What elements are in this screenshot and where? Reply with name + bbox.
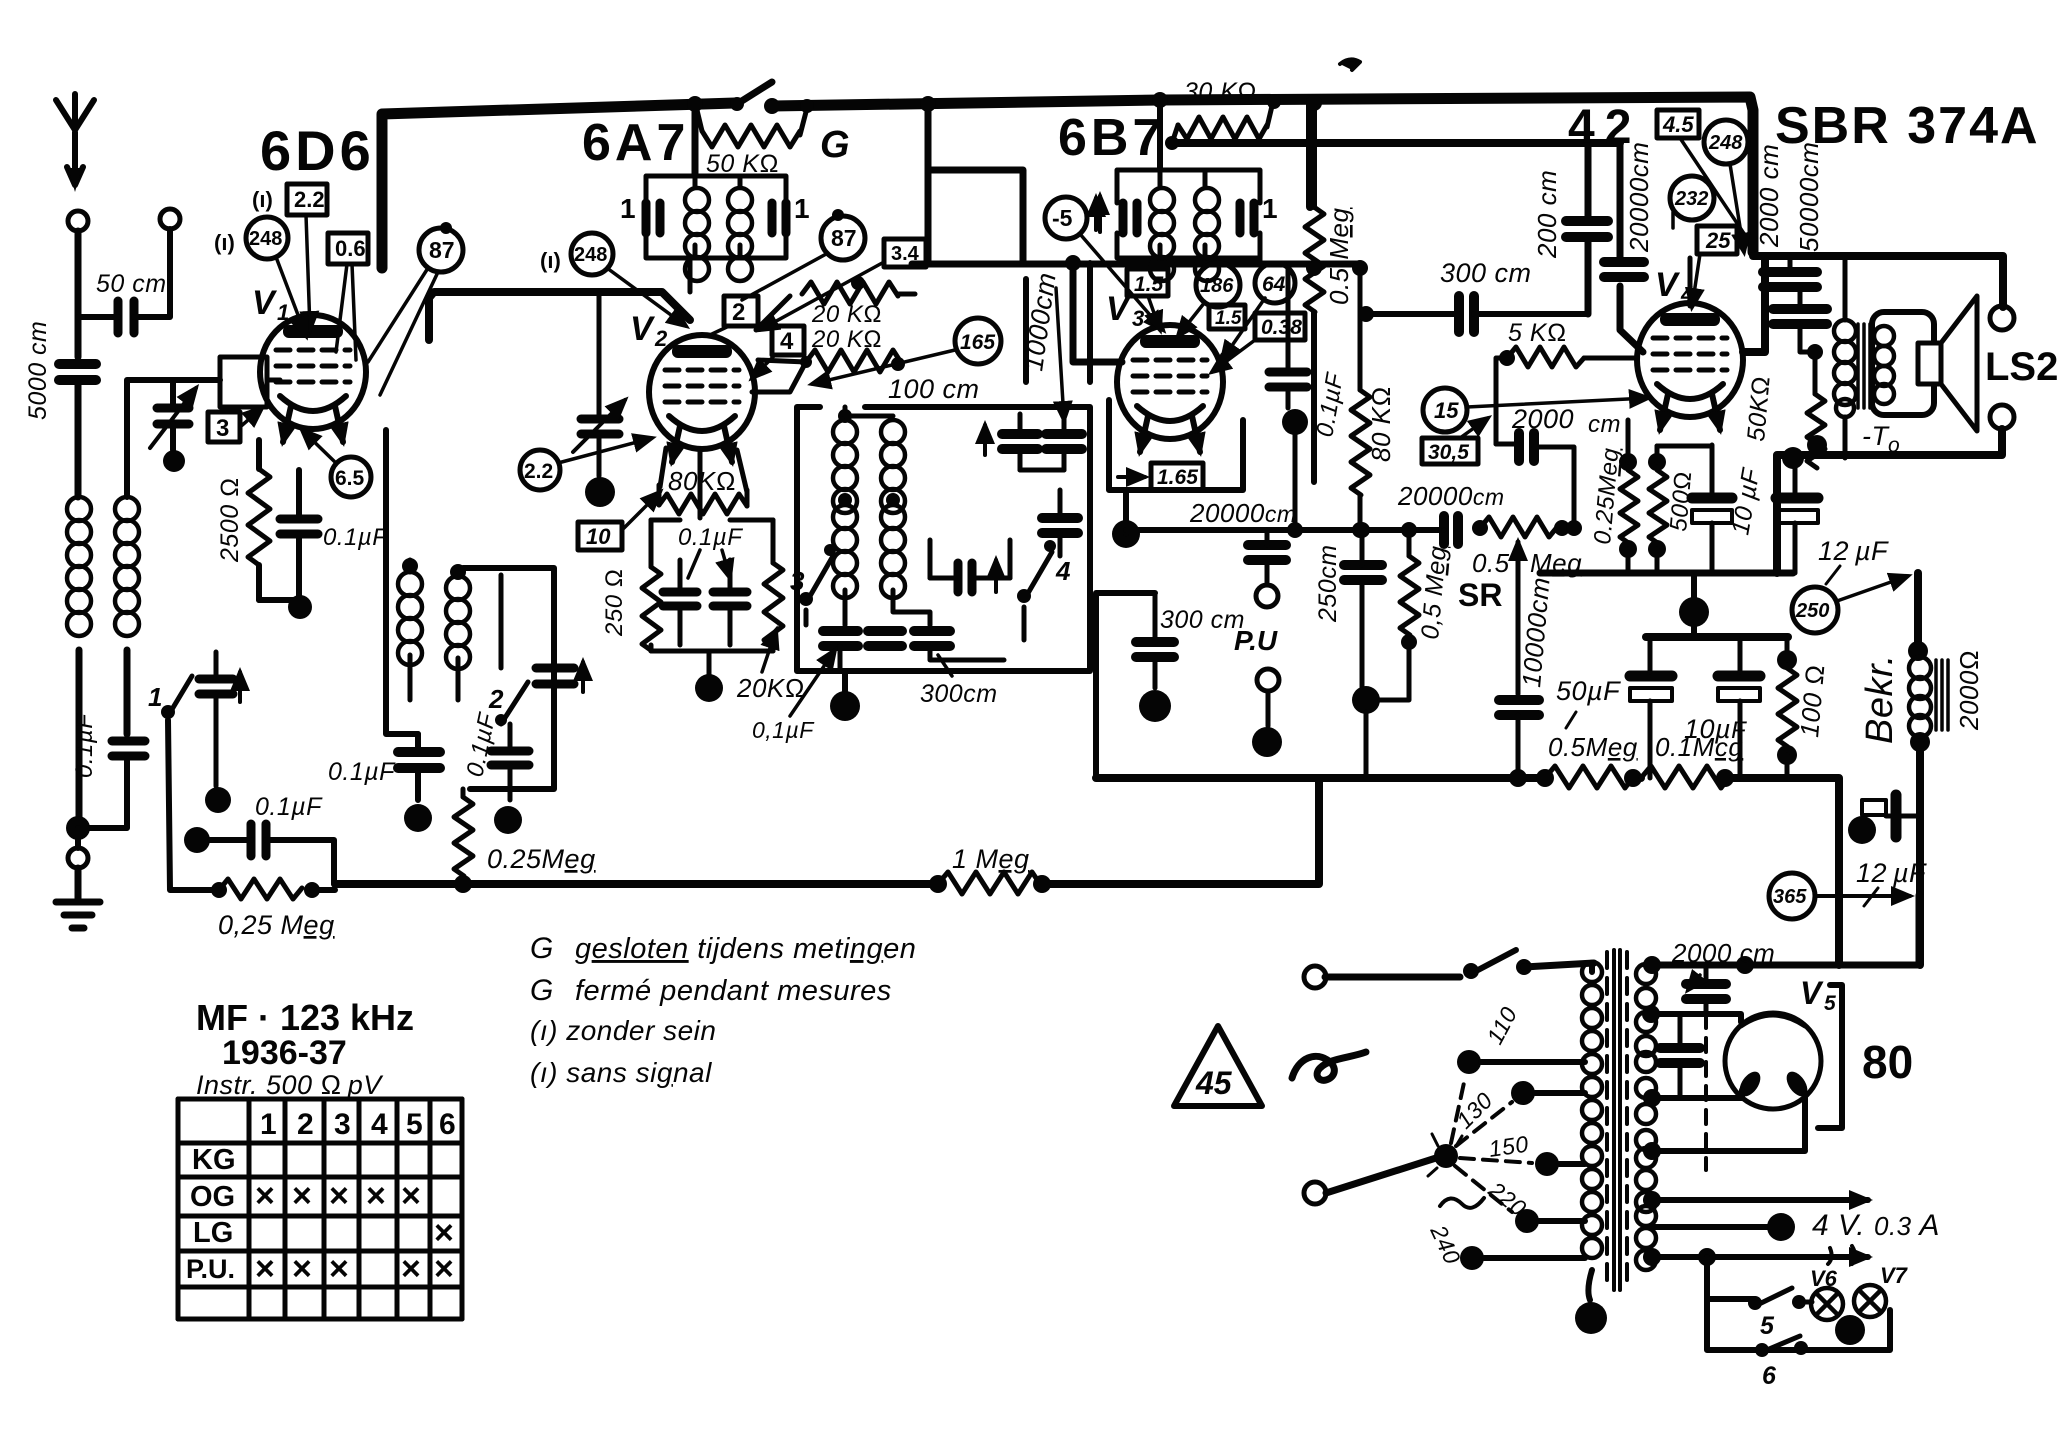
wire HT top to V5	[1643, 895, 1919, 974]
power transformer secondary HV	[1636, 964, 1656, 1056]
wire HV tap to V5 plate	[1642, 1005, 1741, 1023]
power transformer core	[1607, 950, 1627, 1290]
label 20Kohm leg	[736, 630, 805, 703]
svg-text:2000 cm: 2000 cm	[1671, 938, 1775, 968]
antenna terminal 1	[68, 211, 88, 231]
capacitor IF2 right	[1240, 203, 1254, 233]
svg-text:×: ×	[329, 1177, 349, 1215]
svg-text:1.65: 1.65	[1157, 466, 1198, 489]
label 12uF bottom	[1856, 858, 1927, 906]
svg-text:232: 232	[1674, 188, 1708, 210]
svg-text:50µF: 50µF	[1556, 676, 1621, 706]
svg-text:×: ×	[329, 1250, 349, 1288]
svg-text:1: 1	[620, 193, 636, 224]
resistor 5K	[1496, 347, 1637, 444]
junction ground node	[66, 816, 90, 840]
wire band2 box	[463, 568, 554, 789]
terminal LS2 top	[1990, 306, 2014, 330]
label 6D6	[260, 119, 375, 182]
svg-text:0,25 Meg: 0,25 Meg	[218, 910, 335, 940]
svg-text:3: 3	[790, 566, 805, 596]
wire det out line	[1126, 522, 1444, 538]
capacitor 1000cm	[1046, 414, 1082, 470]
label 130	[1451, 1087, 1498, 1134]
resistor 30K	[1165, 95, 1281, 150]
svg-text:o: o	[1888, 434, 1900, 457]
svg-text:365: 365	[1773, 886, 1807, 908]
wire switch2 stem	[499, 575, 504, 668]
capacitor 300cm PU	[1136, 593, 1174, 688]
label 250cm	[1314, 544, 1342, 623]
resistor 500ohm	[1648, 446, 1667, 573]
capacitor IF1 right	[772, 203, 786, 233]
svg-text:4.5: 4.5	[1662, 112, 1694, 137]
capacitor 10000cm	[1499, 700, 1539, 787]
junction Bekr bottom	[1910, 732, 1930, 965]
speaker LS2 box	[1872, 312, 1934, 415]
svg-text:0.38: 0.38	[1261, 316, 1302, 339]
label 50000cm	[1794, 142, 1824, 252]
junction 0.1uF coupling left	[184, 827, 210, 853]
svg-text:G: G	[820, 124, 850, 166]
pointer 3 to tube	[240, 408, 262, 427]
label 0.1uF V1	[323, 524, 388, 551]
capacitor 0.1uF band2	[491, 724, 529, 800]
wire V3 diode box	[1109, 400, 1243, 490]
svg-text:100 Ω: 100 Ω	[1794, 663, 1830, 738]
tap dot 240	[1460, 1246, 1585, 1270]
label Instr 500 pV	[196, 1070, 384, 1100]
capacitor V2 cath 1	[663, 560, 697, 645]
bracket 80	[1818, 985, 1842, 1128]
label 20Kohm upper	[811, 301, 882, 328]
capacitor 50cm	[78, 229, 170, 333]
label 80Kohm det	[1366, 386, 1396, 462]
svg-text:0.5: 0.5	[1472, 548, 1510, 578]
label PU	[1234, 625, 1278, 656]
label 0.1Meg bus	[1655, 732, 1743, 762]
resistor 0.1Meg bus	[1641, 766, 1734, 788]
svg-text:SR: SR	[1458, 577, 1502, 613]
label 150	[1487, 1131, 1530, 1162]
svg-text:1936-37: 1936-37	[222, 1034, 347, 1072]
wire bottom bus H6	[1096, 778, 1839, 965]
svg-text:1 Meg: 1 Meg	[952, 844, 1030, 874]
label V3	[1106, 290, 1144, 331]
svg-text:2.2: 2.2	[524, 460, 553, 483]
svg-text:80 KΩ: 80 KΩ	[1366, 386, 1396, 462]
switch 5	[1748, 1288, 1812, 1340]
capacitor 10uF bus	[1718, 640, 1760, 778]
wire vertical 200cm branch	[1585, 143, 1592, 314]
svg-text:4 V. 0.3 A: 4 V. 0.3 A	[1812, 1209, 1940, 1242]
junction cath-speaker	[1782, 447, 1804, 469]
label 2000cm mid	[1511, 404, 1621, 438]
switch 3	[790, 544, 836, 625]
table row label KG	[192, 1144, 236, 1176]
label 100cm	[888, 374, 980, 404]
svg-text:OG: OG	[190, 1181, 235, 1213]
tube V3	[1117, 325, 1223, 452]
svg-text:20 KΩ: 20 KΩ	[811, 326, 882, 353]
svg-text:2: 2	[732, 299, 745, 326]
symbol AC squiggle	[1292, 1052, 1366, 1080]
label 0.5Meg 6B7	[1324, 208, 1354, 305]
label 300cm PU	[1160, 606, 1245, 634]
label 50Kohm output	[1742, 375, 1776, 443]
label 12uF top	[0, 0, 3, 3]
label 2500ohm	[216, 477, 244, 563]
resistor 0.5Meg 6B7	[1305, 95, 1324, 482]
table header numbers	[260, 1108, 456, 1141]
svg-text:P.U.: P.U.	[186, 1254, 235, 1284]
label 0.38 box	[1212, 313, 1305, 372]
capacitor IF2 left	[1123, 203, 1137, 233]
terminal PU bottom	[1257, 669, 1279, 726]
wire V2 cathode bottom	[651, 448, 773, 676]
svg-text:V7: V7	[1880, 1263, 1909, 1288]
label 240	[1425, 1198, 1484, 1268]
wire antenna coil top links	[127, 380, 220, 497]
svg-text:Instr. 500 Ω pV: Instr. 500 Ω pV	[196, 1070, 384, 1100]
svg-text:1: 1	[277, 300, 289, 325]
svg-text:V: V	[630, 310, 656, 348]
label 500ohm	[1665, 470, 1697, 533]
svg-text:×: ×	[401, 1250, 421, 1288]
wire V4 cathode bus	[1540, 570, 1793, 577]
svg-text:300 cm: 300 cm	[1440, 258, 1532, 288]
capacitor V5 filter	[1660, 1014, 1700, 1098]
note sans signal	[530, 1057, 712, 1088]
svg-text:0.25Meg: 0.25Meg	[487, 844, 596, 874]
capacitor 20000cm coupling2	[1444, 516, 1458, 544]
label 6A7	[582, 114, 689, 172]
label (i) 2.2	[252, 184, 327, 215]
label 10uF cath	[1726, 465, 1765, 537]
label 0.5Meg bus	[1548, 732, 1638, 762]
capacitor 100cm top pair	[985, 414, 1038, 470]
note G ferme	[530, 974, 892, 1007]
label 42	[1568, 101, 1641, 154]
label 30,5 box	[1422, 418, 1488, 464]
resistor 0.25Meg vertical	[454, 789, 473, 893]
junction band box bottom	[830, 671, 860, 721]
label 165 circle	[812, 318, 1001, 384]
svg-text:×: ×	[292, 1250, 312, 1288]
capacitor padding mid	[930, 560, 1010, 592]
svg-text:10: 10	[586, 524, 611, 549]
wire lamp circuit frame	[1707, 1257, 1890, 1350]
resistor 50K output	[1807, 344, 1827, 468]
label 4.5 box	[1657, 110, 1755, 250]
label 0.1uF coupling	[255, 793, 323, 821]
junction band1	[205, 787, 231, 813]
capacitor 20000cm PU	[1248, 530, 1286, 582]
svg-text:2500 Ω: 2500 Ω	[216, 477, 244, 563]
capacitor 2000cm mid	[1496, 433, 1574, 528]
label 1 tick right	[794, 193, 810, 224]
table band grid	[178, 1099, 462, 1319]
label 220	[1483, 1176, 1531, 1222]
svg-text:20000cm: 20000cm	[1189, 498, 1296, 528]
svg-text:LG: LG	[193, 1217, 233, 1249]
capacitor IF1 left	[646, 203, 660, 233]
svg-text:Bekr.: Bekr.	[1859, 654, 1901, 744]
label (i)248 V2	[540, 233, 686, 326]
junction 300cm PU	[1139, 690, 1171, 722]
svg-text:87: 87	[429, 237, 455, 263]
wire band box top links	[845, 407, 1064, 578]
svg-text:12 µF: 12 µF	[1818, 536, 1889, 566]
transformer To core	[1858, 324, 1870, 408]
arrow tick IF2 left	[1098, 196, 1102, 232]
svg-text:V: V	[1655, 266, 1681, 304]
wire V4 grid lead	[1688, 258, 1693, 306]
label 20000cm coupling2	[1397, 481, 1504, 511]
svg-text:0.1µF: 0.1µF	[71, 713, 98, 778]
power transformer secondary HV2	[1636, 1052, 1656, 1150]
label 365 circle	[1769, 873, 1910, 919]
svg-text:64: 64	[1262, 273, 1286, 296]
junction PU bottom	[1252, 727, 1282, 757]
resistor 100ohm	[1777, 637, 1797, 778]
svg-text:(ı): (ı)	[252, 187, 273, 212]
label 6B7	[1058, 109, 1165, 167]
tube V1	[260, 315, 366, 442]
label 1000cm	[1018, 271, 1061, 373]
capacitor 50uF	[1630, 640, 1672, 778]
label 300cm coupling	[1440, 258, 1532, 288]
label 10000cm	[1516, 576, 1556, 689]
coil RF primary	[398, 558, 422, 700]
lamp V7	[1854, 1263, 1909, 1317]
switch 4	[1017, 540, 1071, 640]
svg-text:6A7: 6A7	[582, 114, 689, 172]
label 0.1uF left column	[328, 758, 396, 786]
junction det	[1282, 409, 1308, 528]
junction V2 bottom	[695, 674, 723, 702]
svg-text:×: ×	[292, 1177, 312, 1215]
capacitor 0.1uF V1 cathode	[280, 470, 318, 600]
wire top bus H1 left segment	[382, 103, 735, 268]
coil osc A	[833, 409, 857, 625]
label V2	[630, 310, 668, 351]
dashed center tap	[1704, 1014, 1708, 1170]
svg-text:150: 150	[1487, 1131, 1530, 1162]
wire bus drop to 0.5Meg at 6B7	[1306, 99, 1314, 207]
svg-text:20000cm: 20000cm	[1397, 481, 1504, 511]
svg-text:KG: KG	[192, 1144, 236, 1176]
svg-text:1: 1	[148, 682, 162, 712]
svg-text:0.1µF: 0.1µF	[323, 524, 388, 551]
svg-text:300 cm: 300 cm	[1160, 606, 1245, 634]
table X marks PU	[255, 1250, 454, 1288]
svg-text:0.5Meg: 0.5Meg	[1548, 732, 1638, 762]
capacitor 200cm	[1566, 221, 1608, 237]
table X marks LG	[434, 1214, 454, 1252]
power transformer winding 4V	[1636, 1148, 1656, 1212]
label 10uF bus	[1684, 714, 1747, 744]
coil IF1 right	[728, 188, 752, 281]
junction band2	[494, 806, 522, 834]
svg-text:6: 6	[439, 1108, 456, 1141]
svg-text:(ı): (ı)	[214, 230, 235, 255]
svg-text:5000 cm: 5000 cm	[24, 321, 52, 420]
svg-text:1.5: 1.5	[1134, 273, 1164, 296]
svg-text:300cm: 300cm	[920, 680, 998, 708]
capacitor band1	[199, 652, 240, 786]
label 50Kohm	[706, 150, 779, 178]
switch mains	[1463, 950, 1594, 979]
svg-text:6: 6	[1762, 1362, 1777, 1390]
svg-text:100 cm: 100 cm	[888, 374, 980, 404]
svg-text:(ı) sans signal: (ı) sans signal	[530, 1057, 712, 1088]
terminal LS2 bottom	[1990, 405, 2014, 429]
svg-text:SBR 374A: SBR 374A	[1775, 97, 2040, 155]
capacitor 250cm	[1344, 522, 1382, 690]
label V5	[1800, 975, 1836, 1015]
svg-text:165: 165	[960, 331, 995, 354]
junction left column	[404, 804, 432, 832]
label 0.1uF screen	[678, 524, 743, 551]
tap dot 110	[1457, 1050, 1585, 1074]
svg-text:G: G	[530, 932, 554, 965]
pointer 0.1uF screen	[688, 550, 730, 578]
svg-text:4: 4	[1055, 556, 1071, 586]
antenna symbol	[56, 94, 94, 192]
label 250 circle	[1792, 576, 1908, 633]
choke Bekr core	[1936, 660, 1948, 730]
svg-text:MF · 123 kHz: MF · 123 kHz	[196, 997, 414, 1038]
svg-text:3: 3	[334, 1108, 351, 1141]
capacitor 300cm	[1358, 296, 1588, 332]
terminal mains 1	[1304, 966, 1326, 988]
wire vertical 20000cm branch	[1620, 143, 1643, 352]
capacitor trimmer band2	[536, 652, 583, 692]
svg-text:50KΩ: 50KΩ	[1742, 375, 1776, 443]
label MF 123kHz	[196, 997, 414, 1038]
svg-text:0.1µF: 0.1µF	[678, 524, 743, 551]
trimmer capacitor antenna	[150, 388, 196, 450]
capacitor 0.1uF antenna coil	[78, 741, 145, 828]
svg-text:3.4: 3.4	[891, 243, 920, 265]
capacitor tone 1	[1763, 256, 1817, 287]
label V4	[1655, 266, 1693, 307]
switch 1	[148, 676, 192, 719]
label 300cm band	[920, 655, 998, 708]
label 4 box V2	[752, 326, 804, 378]
coil osc B	[881, 420, 930, 625]
label 1.5 box a	[1127, 269, 1168, 330]
svg-text:12 µF: 12 µF	[1856, 858, 1927, 888]
tap dot 150	[1535, 1152, 1585, 1176]
svg-text:87: 87	[831, 225, 857, 251]
label LS2	[1985, 345, 2058, 389]
label 20Kohm lower	[811, 326, 882, 353]
label 200cm	[1532, 170, 1562, 259]
svg-text:2000Ω: 2000Ω	[1954, 650, 1984, 731]
label 248 circle V4	[1704, 120, 1748, 252]
junction transformer bottom	[1575, 1302, 1607, 1334]
svg-text:×: ×	[434, 1214, 454, 1252]
resistor 250ohm V2	[642, 520, 661, 651]
switch 2	[488, 682, 528, 726]
label 0.25Meg V4bias	[1589, 446, 1624, 545]
selector dashed 110	[1451, 1078, 1465, 1143]
wire 6A7 osc coil drop	[687, 96, 703, 176]
svg-text:V: V	[252, 284, 278, 322]
label 3 box	[208, 412, 240, 442]
svg-text:50000cm: 50000cm	[1794, 142, 1824, 252]
label 2000ohm	[1954, 650, 1984, 731]
junction trimmer bottom	[163, 450, 185, 472]
wire 1000cm bracket	[1026, 263, 1090, 420]
junction Bekr top	[1908, 641, 1928, 661]
table row label OG	[190, 1181, 235, 1213]
resistor 0.25Meg V4bias	[1619, 420, 1638, 573]
resistor 1Meg	[929, 872, 1051, 894]
svg-text:1: 1	[1262, 193, 1278, 224]
svg-text:LS2: LS2	[1985, 345, 2058, 389]
label (i) 248	[214, 217, 288, 259]
svg-text:250 Ω: 250 Ω	[601, 568, 628, 637]
svg-text:P.U: P.U	[1234, 625, 1278, 656]
label 80Kohm	[668, 466, 736, 496]
resistor 80K screen	[659, 485, 747, 514]
capacitor 5000cm	[59, 364, 96, 497]
svg-text:30,5: 30,5	[1428, 441, 1469, 464]
wire 4V dot lead	[1646, 1213, 1795, 1241]
svg-text:6.5: 6.5	[335, 467, 365, 490]
label 87 circle 6A7	[742, 209, 865, 300]
svg-text:×: ×	[434, 1250, 454, 1288]
label 232 circle	[1670, 176, 1714, 228]
label -5 circle	[1045, 197, 1163, 330]
label 1Meg	[952, 844, 1030, 874]
label 1 tick IF2	[1262, 193, 1278, 224]
label 50uF	[1556, 676, 1621, 728]
svg-text:20 KΩ: 20 KΩ	[811, 301, 882, 328]
wire 4V arrow top	[1643, 1191, 1868, 1209]
label 0.6	[328, 233, 368, 264]
resistor 50K top	[696, 99, 814, 147]
resistor 80K det	[1351, 260, 1370, 530]
svg-text:248: 248	[249, 228, 282, 250]
junction lamps	[1835, 1315, 1865, 1345]
label 0.1uF antenna	[71, 713, 98, 778]
label 110	[1481, 1002, 1522, 1048]
coil IF2 right	[1195, 188, 1219, 281]
svg-text:×: ×	[255, 1177, 275, 1215]
node mains selector	[1428, 1134, 1462, 1176]
svg-text:gesloten tijdens metingen: gesloten tijdens metingen	[575, 933, 916, 965]
lamp V6	[1810, 1266, 1843, 1320]
capacitor 0.1uF left column	[398, 734, 440, 800]
power transformer winding heater	[1636, 1206, 1656, 1270]
svg-text:fermé pendant mesures: fermé pendant mesures	[575, 975, 892, 1007]
label 186 circle	[1178, 263, 1240, 336]
triangle 45	[1174, 1026, 1262, 1106]
resistor 0.5Meg bus	[1536, 766, 1642, 788]
trimmer capacitor V2	[573, 292, 625, 476]
wire PU section left	[1096, 593, 1155, 778]
svg-text:5: 5	[1760, 1312, 1775, 1340]
svg-text:-5: -5	[1052, 205, 1073, 231]
svg-text:2: 2	[297, 1108, 314, 1141]
switch G blade on top bus	[730, 82, 780, 114]
label To	[1862, 421, 1900, 457]
svg-text:cm: cm	[1588, 411, 1621, 438]
